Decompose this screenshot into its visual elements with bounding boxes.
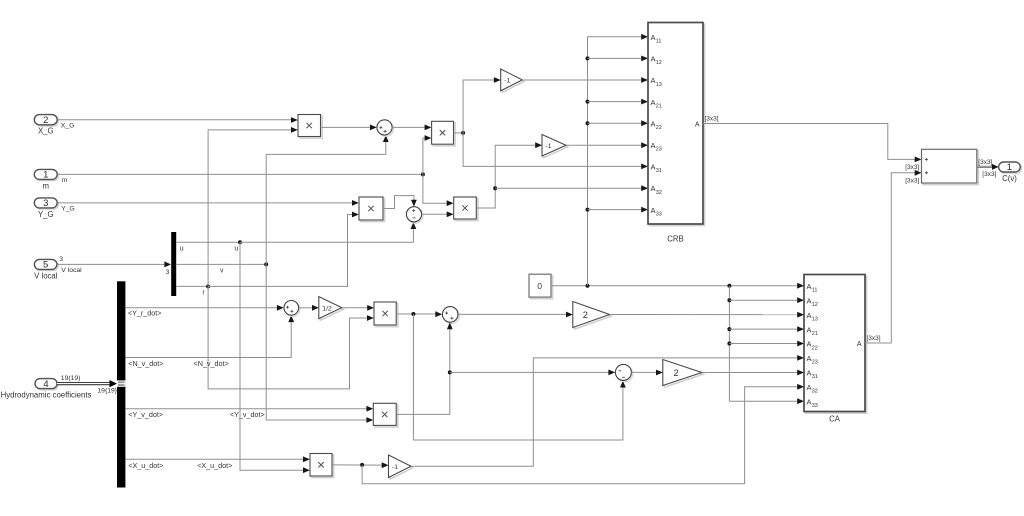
svg-text:33: 33: [812, 403, 818, 409]
wire gain 1/2 to product: [342, 305, 374, 311]
gain -1 middle: [542, 135, 568, 158]
wire Xu*u out: [332, 462, 389, 468]
wire sum to gain 1/2: [299, 305, 319, 311]
svg-text:[3x3]: [3x3]: [905, 178, 919, 185]
svg-text:Hydrodynamic coefficients: Hydrodynamic coefficients: [1, 390, 92, 399]
svg-text:[3x3]: [3x3]: [867, 335, 881, 342]
svg-text:[3x3]: [3x3]: [982, 171, 996, 178]
sum block Add: [922, 149, 979, 184]
wire gain-1 to CRB A23: [566, 142, 648, 148]
svg-text:2: 2: [674, 368, 679, 378]
svg-text:4: 4: [43, 379, 48, 390]
svg-text:32: 32: [656, 190, 662, 196]
svg-text:13: 13: [656, 82, 662, 88]
node Yv*v junction: [448, 370, 452, 374]
label [3x3] out bottom: [982, 171, 996, 178]
node m(xgr+v) junction: [461, 131, 465, 135]
label u: [180, 245, 184, 252]
wire sum CA13 to gain 2: [458, 312, 573, 318]
sum xgr+v: [377, 120, 394, 137]
wire gain2 to CA A13: [610, 312, 804, 318]
inport 1 m: [34, 169, 58, 190]
label Y_v_dot 2: [230, 410, 265, 419]
svg-text:2: 2: [43, 115, 48, 126]
wire u to sum m(ygr-u): [240, 222, 416, 242]
wire v from demux: [176, 263, 266, 265]
wire to CRB A32: [495, 185, 648, 191]
svg-text:3: 3: [59, 256, 63, 263]
svg-text:Y_G: Y_G: [38, 210, 54, 219]
node 0 junction CRB: [586, 284, 590, 288]
svg-text:u: u: [234, 245, 238, 252]
svg-text:19{19}: 19{19}: [97, 387, 117, 394]
wire sum to product m(ygr-u): [422, 211, 454, 217]
svg-text:Y_G: Y_G: [61, 206, 75, 213]
node m junction: [421, 172, 425, 176]
node 0 junction CA: [727, 284, 731, 288]
svg-text:-1: -1: [504, 78, 510, 85]
label CA: [829, 415, 841, 424]
svg-text:23: 23: [812, 360, 818, 366]
svg-text:V local: V local: [34, 271, 58, 280]
svg-text:X_G: X_G: [38, 127, 54, 136]
wire m up to product m(xgr+v): [423, 135, 432, 174]
wire Yv*v up: [396, 322, 453, 414]
subsystem CRB: [648, 23, 705, 226]
node m(ygr-u) junction: [493, 186, 497, 190]
node half*r junction: [411, 312, 415, 316]
svg-text:1: 1: [1007, 162, 1012, 173]
svg-text:<N_v_dot>: <N_v_dot>: [194, 359, 229, 368]
svg-text:11: 11: [812, 288, 818, 294]
svg-text:v: v: [220, 268, 224, 275]
label N_v_dot 2: [194, 359, 229, 368]
sum Yr+Nv: [284, 301, 300, 317]
wire m(ygr-u) up: [476, 142, 542, 208]
svg-text:m: m: [62, 177, 68, 184]
width label 3 at port 5: [59, 256, 63, 263]
wire Xu*u to CA A32: [362, 384, 804, 484]
constant 0: [529, 274, 553, 298]
svg-text:<X_u_dot>: <X_u_dot>: [197, 461, 232, 470]
label N_v_dot: [128, 359, 163, 368]
wire Y_r_dot: [125, 305, 283, 311]
wire X_u_dot: [125, 456, 309, 462]
gain 2 top: [573, 302, 611, 330]
wire Yg*r to sum: [383, 196, 417, 209]
svg-text:[3x3]: [3x3]: [978, 159, 992, 166]
label CRB: [667, 235, 683, 244]
svg-text:-1: -1: [546, 143, 552, 150]
product m(ygr-u): [454, 197, 478, 221]
product Xg*r: [298, 115, 322, 139]
wire r down to product half*r: [208, 286, 374, 389]
inport 2 X_G: [34, 115, 58, 136]
svg-text:C(v): C(v): [1002, 174, 1017, 183]
product Xu*u: [310, 454, 334, 478]
gain 2 bottom: [663, 360, 704, 388]
wire gain-1c to CA A23: [411, 355, 804, 466]
wire r up to product Xg*r: [208, 127, 298, 286]
inport 3 Y_G: [34, 198, 58, 219]
node CRB A33: [586, 208, 590, 212]
svg-text:12: 12: [812, 302, 818, 308]
wire u down to product Xu*u: [240, 242, 310, 473]
svg-text:31: 31: [656, 168, 662, 174]
svg-text:r: r: [202, 289, 205, 296]
svg-text:1/2: 1/2: [322, 305, 332, 312]
wire gain2b to CA A31: [702, 370, 804, 376]
svg-text:22: 22: [656, 125, 662, 131]
svg-text:<X_u_dot>: <X_u_dot>: [128, 461, 163, 470]
svg-text:23: 23: [656, 147, 662, 153]
svg-text:19(19): 19(19): [61, 375, 81, 382]
svg-text:X_G: X_G: [61, 123, 75, 130]
width label 3 at demux: [166, 269, 170, 276]
svg-text:CA: CA: [829, 415, 841, 424]
width label 19(19): [61, 375, 81, 382]
wire CRB A12: [588, 56, 649, 62]
wire r to product Yg*r: [208, 212, 359, 287]
wire sum to product m(xgr+v): [392, 125, 431, 131]
wire gain-1 to CRB A13: [522, 77, 648, 83]
wire half*r down to sum2: [413, 314, 625, 440]
svg-text:V local: V local: [61, 267, 82, 274]
signal label X_G: [61, 123, 75, 130]
signal label V local: [61, 267, 82, 274]
svg-text:<Y_r_dot>: <Y_r_dot>: [128, 308, 162, 317]
bus selector: [117, 281, 125, 487]
label r: [202, 289, 205, 296]
signal label Y_G: [61, 206, 75, 213]
svg-text:13: 13: [812, 317, 818, 323]
label u at junction: [234, 245, 238, 252]
product half*r: [374, 302, 398, 327]
wire CA A to Add: [865, 170, 922, 343]
wire Y_G to product: [57, 200, 359, 206]
svg-text:1: 1: [43, 170, 48, 181]
product Yg*r: [359, 197, 385, 222]
wire v up to sum xgr+v: [266, 135, 389, 264]
svg-text:[3x3]: [3x3]: [905, 164, 919, 171]
wire sum2 to gain 2: [631, 370, 662, 376]
node CA A22: [727, 342, 731, 346]
svg-text:A: A: [695, 121, 700, 128]
svg-text:12: 12: [656, 60, 662, 66]
svg-text:m: m: [43, 181, 50, 190]
wire 0 riser to CRB: [588, 34, 649, 286]
inport 4 Hydrodynamic coefficients: [1, 379, 92, 400]
label Y_r_dot: [128, 308, 162, 317]
sum ygr-u: [406, 207, 423, 224]
demux: [171, 232, 176, 296]
node CRB A21: [586, 100, 590, 104]
svg-text:<N_v_dot>: <N_v_dot>: [128, 359, 163, 368]
node u junction: [238, 240, 242, 244]
wire product to sum xgr+v: [321, 125, 377, 131]
sum CA31: [615, 364, 632, 381]
node CRB A22: [586, 121, 590, 125]
svg-text:<Y_v_dot>: <Y_v_dot>: [128, 410, 163, 419]
svg-text:0: 0: [537, 281, 542, 291]
wire X_G to product: [57, 117, 297, 123]
wire m(xgr+v) out: [454, 132, 464, 134]
wire m(xgr+v) to CRB A31: [463, 133, 648, 169]
label [3x3] out top: [978, 159, 992, 166]
node Xu*u junction: [360, 463, 364, 467]
wire CA A12: [729, 297, 804, 303]
svg-text:22: 22: [812, 345, 818, 351]
wire CRB A33: [588, 207, 649, 213]
node CA A21: [727, 327, 731, 331]
label v: [220, 268, 224, 275]
node r junction: [206, 284, 210, 288]
node CRB A12: [586, 56, 590, 60]
wire Add to outport: [977, 164, 999, 170]
node CA A12: [727, 298, 731, 302]
svg-text:2: 2: [583, 310, 588, 320]
svg-text:21: 21: [656, 103, 662, 109]
svg-text:<Y_v_dot>: <Y_v_dot>: [230, 410, 265, 419]
wire v down to product Yv*v: [266, 264, 373, 423]
svg-text:31: 31: [812, 374, 818, 380]
wire to gain -1 A13: [463, 77, 501, 133]
svg-text:u: u: [180, 245, 184, 252]
label [3x3] CRB out: [705, 115, 719, 122]
node v junction: [264, 262, 268, 266]
svg-text:21: 21: [812, 331, 818, 337]
wire 0 to CA A11: [551, 283, 804, 289]
wire 0 riser to CA A33: [729, 286, 804, 404]
wire CA A21: [729, 326, 804, 332]
wire V local to demux: [57, 261, 171, 267]
svg-text:11: 11: [656, 39, 662, 45]
wire m to junction: [57, 173, 423, 175]
wire m down to product m(ygr-u): [423, 174, 454, 206]
signal label m: [62, 177, 68, 184]
product m(xgr+v): [432, 121, 456, 146]
wire CRB A to Add: [703, 124, 922, 163]
svg-text:A: A: [857, 341, 862, 348]
wire CA A22: [729, 341, 804, 347]
label Y_v_dot: [128, 410, 163, 419]
wire r from demux: [176, 285, 208, 287]
svg-text:3: 3: [43, 198, 48, 209]
gain -1 bottom: [389, 455, 413, 479]
wire CRB A21: [588, 99, 649, 105]
svg-text:CRB: CRB: [667, 235, 683, 244]
svg-text:[3x3]: [3x3]: [705, 115, 719, 122]
wire u from demux: [176, 241, 240, 243]
bus wire Hydrodynamic coefficients: [57, 380, 117, 387]
wire Y_v_dot: [125, 406, 373, 412]
svg-text:3: 3: [166, 269, 170, 276]
label [3x3] add in2: [905, 178, 919, 185]
svg-text:5: 5: [43, 260, 48, 271]
label X_u_dot: [128, 461, 163, 470]
subsystem CA: [804, 275, 867, 414]
inport 5 V local: [34, 259, 58, 280]
svg-text:33: 33: [656, 211, 662, 217]
wire N_v_dot: [125, 315, 294, 357]
label [3x3] add in1: [905, 164, 919, 171]
product Yv*v: [373, 403, 398, 427]
outport 1 C(v): [999, 162, 1022, 183]
gain -1 top: [501, 69, 524, 92]
wire half*r out: [396, 311, 442, 317]
wire CRB A22: [588, 120, 649, 126]
width label 19{19}: [97, 387, 117, 394]
gain 1/2: [319, 297, 344, 321]
sum CA13: [442, 307, 459, 324]
svg-text:32: 32: [812, 389, 818, 395]
label [3x3] CA out: [867, 335, 881, 342]
label X_u_dot 2: [197, 461, 232, 470]
svg-text:-1: -1: [392, 464, 398, 471]
wire Yv*v to sum2: [450, 370, 615, 376]
